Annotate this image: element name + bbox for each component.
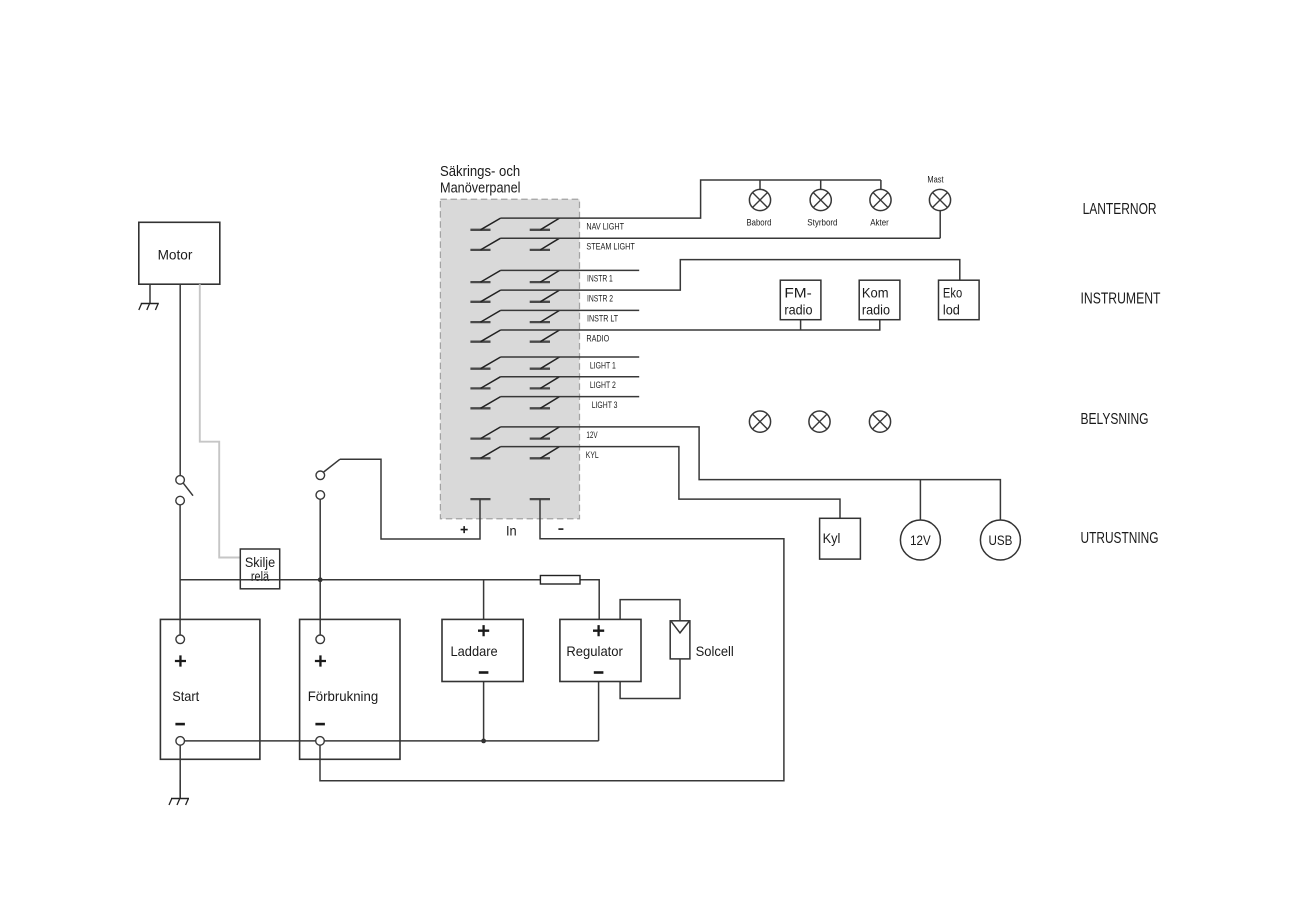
box Regulator [598, 682, 600, 741]
svg-text:LIGHT 2: LIGHT 2 [590, 380, 616, 390]
wire plus bus through relä [240, 579, 279, 581]
switch pair SW INSTR LT [470, 321, 550, 323]
wire net STEAM LIGHT [501, 237, 941, 239]
wire minus bus batteries to chargers [180, 740, 598, 742]
battery Start B1 [160, 619, 260, 759]
svg-text:In: In [506, 522, 517, 538]
svg-text:USB: USB [988, 532, 1012, 548]
svg-text:Akter: Akter [870, 217, 889, 227]
svg-text:Förbrukning: Förbrukning [308, 688, 379, 704]
switch pair SW STEAM LIGHT [470, 249, 550, 251]
wire net LIGHT 1 [501, 356, 640, 358]
wire panel - return (big loop to Förbrukning minus) [320, 499, 784, 781]
wire net INSTR 1 [501, 269, 640, 271]
svg-text:Solcell: Solcell [696, 643, 734, 659]
ground motor chassis [149, 284, 151, 303]
switch pair SW NAV LIGHT [470, 229, 550, 231]
wire Regulator-Solcell loop bottom [620, 659, 680, 699]
junction dot Laddare minus [481, 739, 486, 744]
lamp belysning 1 [749, 411, 770, 432]
wire Regulator-Solcell loop top [620, 600, 680, 621]
svg-text:Styrbord: Styrbord [807, 217, 837, 227]
outlet 12V [900, 520, 940, 560]
box Kom radio U2 [859, 280, 900, 320]
svg-text:Regulator: Regulator [566, 643, 623, 659]
svg-text:INSTR 1: INSTR 1 [587, 274, 613, 284]
panel background Säkrings/Manöverpanel [440, 199, 579, 519]
switch pair SW LIGHT 3 [470, 407, 550, 409]
switch pair SW 12V [470, 437, 550, 439]
svg-text:Manöverpanel: Manöverpanel [440, 180, 521, 197]
label + In - [461, 526, 468, 533]
switch pair SW INSTR 2 [470, 301, 550, 303]
wire S1 to Start battery plus [179, 505, 181, 635]
fuse F1 [540, 580, 599, 620]
junction dot Förbrukning plus x bus [318, 577, 323, 582]
svg-text:12V: 12V [910, 532, 931, 548]
svg-text:radio: radio [784, 301, 812, 317]
box Eko lod U3 [939, 280, 980, 320]
box Kyl load [820, 518, 861, 559]
wire Mast to STEAM net [939, 211, 941, 239]
svg-text:Laddare: Laddare [451, 643, 498, 659]
switch pair SW KYL [470, 457, 550, 459]
svg-text:12V: 12V [586, 430, 598, 440]
box Laddare [483, 580, 485, 741]
svg-text:Start: Start [172, 688, 199, 704]
ground Start battery [179, 780, 181, 799]
wire panel + feed (to battery switch) [340, 459, 480, 539]
svg-text:Säkrings- och: Säkrings- och [440, 163, 520, 180]
switch pair SW INSTR 1 [470, 281, 550, 283]
lamp bus drops LANTERNOR [760, 180, 881, 189]
svg-text:lod: lod [943, 301, 960, 317]
svg-text:relä: relä [251, 568, 269, 584]
svg-text:NAV LIGHT: NAV LIGHT [586, 221, 624, 231]
svg-text:UTRUSTNING: UTRUSTNING [1081, 530, 1159, 547]
wire net KYL [501, 447, 840, 519]
svg-text:Mast: Mast [927, 175, 944, 185]
wire net LIGHT 3 [501, 396, 640, 398]
wire net RADIO [501, 320, 880, 330]
svg-text:STEAM LIGHT: STEAM LIGHT [586, 242, 635, 252]
switch pair SW RADIO [470, 341, 550, 343]
wire Start minus to ground [179, 741, 181, 798]
box Skilje relä K1 [180, 579, 540, 581]
svg-text:FM-: FM- [784, 284, 812, 300]
wire net NAV LIGHT [501, 180, 881, 218]
switch pair SW LIGHT 1 [470, 368, 550, 370]
svg-text:KYL: KYL [586, 450, 599, 460]
outlet USB [980, 520, 1020, 560]
svg-text:radio: radio [862, 301, 890, 317]
wire Motor plus to main switch [179, 284, 181, 475]
svg-text:INSTR 2: INSTR 2 [587, 293, 613, 303]
box Motor M1 [139, 222, 220, 284]
svg-text:Kom: Kom [862, 284, 889, 300]
terminal Förbrukning - [316, 737, 325, 746]
terminal Förbrukning + [316, 635, 325, 644]
wire 12V drop to 12V outlet [919, 480, 921, 520]
svg-text:RADIO: RADIO [586, 333, 609, 343]
wire Motor sense (gray) to Skilje relä [200, 284, 241, 557]
wire net LIGHT 2 [501, 376, 640, 378]
terminal Start + [176, 635, 185, 644]
svg-text:BELYSNING: BELYSNING [1081, 411, 1149, 428]
lamp Akter [870, 189, 891, 210]
svg-text:INSTRUMENT: INSTRUMENT [1081, 290, 1161, 307]
box FM-radio U1 [780, 280, 821, 320]
svg-text:LIGHT 1: LIGHT 1 [590, 360, 616, 370]
svg-text:LANTERNOR: LANTERNOR [1083, 201, 1157, 218]
wire FM-radio stub to RADIO net [800, 320, 802, 330]
svg-text:Kyl: Kyl [823, 530, 841, 546]
lamp Babord [749, 189, 770, 210]
terminal Start - [176, 737, 185, 746]
wire net INSTR LT [501, 309, 640, 311]
svg-text:Eko: Eko [943, 284, 962, 300]
wire net 12V [501, 427, 1001, 520]
lamp belysning 3 [869, 411, 890, 432]
switch S1 main Start battery [183, 483, 193, 495]
svg-text:Babord: Babord [747, 217, 772, 227]
solar panel Solcell [670, 621, 690, 659]
lamp belysning 2 [809, 411, 830, 432]
battery Förbrukning B2 [300, 619, 400, 759]
lamp Styrbord [810, 189, 831, 210]
svg-text:INSTR LT: INSTR LT [587, 314, 618, 324]
panel output terminal + [470, 498, 490, 500]
wire net INSTR 2 [501, 260, 960, 291]
switch pair SW LIGHT 2 [470, 387, 550, 389]
switch S2 main Förbrukning battery [324, 459, 340, 472]
panel output terminal - [530, 498, 550, 500]
svg-text:Motor: Motor [158, 247, 193, 263]
svg-text:LIGHT 3: LIGHT 3 [592, 400, 618, 410]
wire S2 to Förbrukning plus [319, 499, 321, 635]
